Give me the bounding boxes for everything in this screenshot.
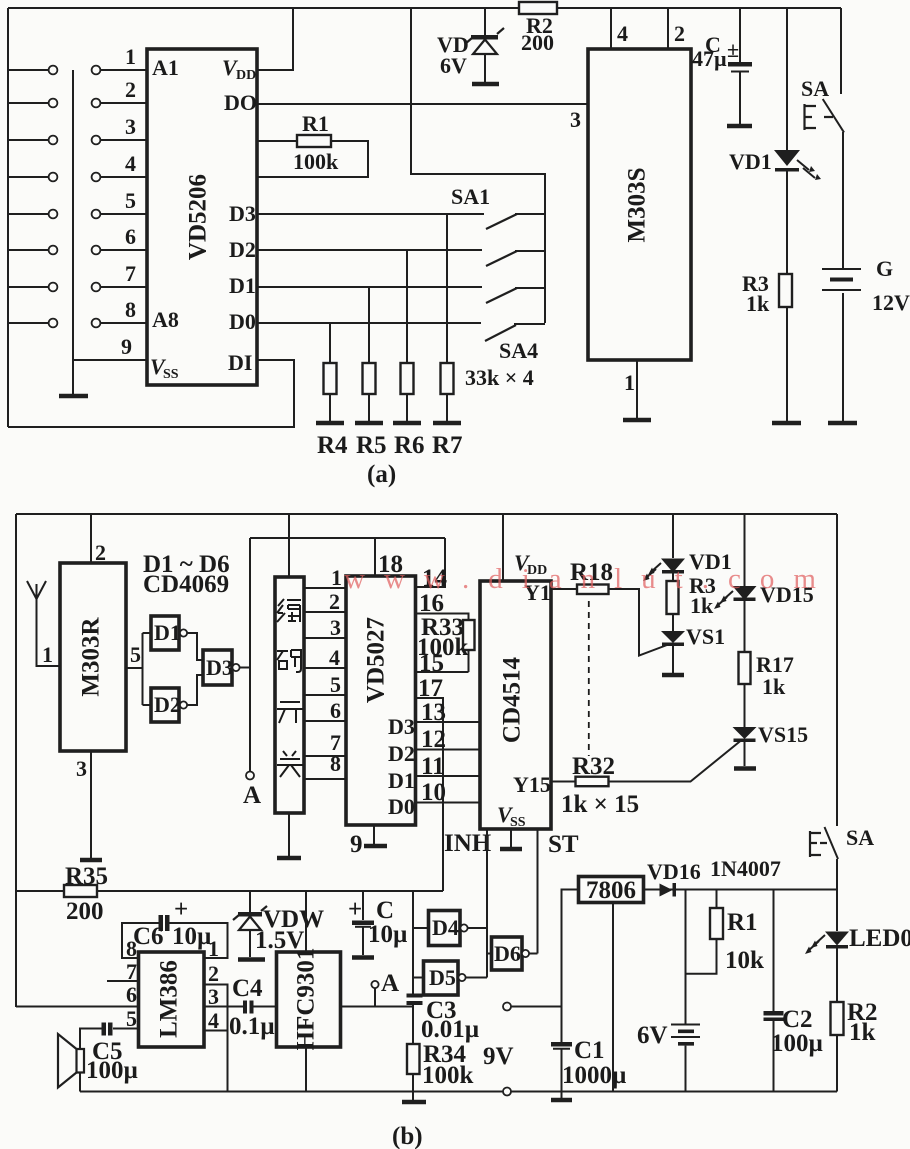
thyristor VS15 — [733, 722, 809, 766]
pin 14 of VD5027 — [416, 538, 448, 592]
IC HFC9301 — [277, 948, 341, 1051]
coding switch pin 3 — [304, 615, 346, 640]
svg-text:DI: DI — [228, 350, 252, 375]
pin 16 wire — [416, 590, 469, 620]
resistor R4 — [317, 323, 348, 459]
svg-text:LM386: LM386 — [156, 960, 183, 1038]
svg-text:100k: 100k — [293, 149, 339, 174]
wire left border — [7, 8, 9, 427]
svg-text:SA4: SA4 — [499, 338, 538, 363]
svg-text:8: 8 — [330, 751, 341, 776]
IC VD5027 — [346, 576, 416, 825]
svg-text:0.1µ: 0.1µ — [229, 1013, 275, 1040]
pin 17 wire INH riser — [416, 675, 444, 891]
inverter D4 — [429, 911, 488, 946]
coding switch pin 5 — [304, 672, 346, 697]
INH wire CD4514 to D4/D5 — [487, 829, 492, 978]
svg-text:200: 200 — [521, 30, 554, 55]
svg-text:200: 200 — [66, 898, 104, 925]
svg-text:(b): (b) — [392, 1123, 423, 1149]
svg-text:D2: D2 — [388, 741, 415, 766]
pin 8 wire — [122, 923, 160, 961]
battery 6V — [637, 1022, 700, 1092]
svg-text:D5: D5 — [429, 965, 456, 990]
svg-text:C1: C1 — [574, 1037, 605, 1064]
svg-text:100µ: 100µ — [86, 1057, 138, 1084]
svg-text:10: 10 — [421, 779, 446, 806]
svg-text:D2: D2 — [154, 692, 181, 717]
speaker — [58, 1034, 84, 1092]
svg-text:C2: C2 — [782, 1006, 813, 1033]
svg-text:13: 13 — [421, 699, 446, 726]
svg-text:VD5206: VD5206 — [185, 174, 212, 260]
svg-text:1: 1 — [331, 565, 342, 590]
svg-text:R5: R5 — [356, 432, 387, 459]
svg-text:INH: INH — [444, 830, 492, 857]
capacitor C 47u — [692, 8, 752, 124]
svg-text:R35: R35 — [65, 863, 108, 890]
inverter D3 — [187, 633, 250, 705]
pin 12 wire D2 — [416, 726, 481, 753]
svg-text:1k: 1k — [690, 593, 714, 618]
keypad row 4 — [8, 151, 147, 181]
svg-text:+: + — [348, 896, 362, 923]
svg-text:R32: R32 — [572, 753, 615, 780]
wire D2 line — [257, 249, 482, 251]
resistor R5 — [356, 287, 387, 459]
svg-text:6V: 6V — [440, 53, 467, 78]
svg-text:DO: DO — [224, 90, 257, 115]
Y15 wire — [551, 781, 576, 783]
resistor R2 — [519, 2, 557, 55]
keypad row 1 — [8, 44, 147, 74]
svg-text:R1: R1 — [302, 111, 329, 136]
ground R3 — [772, 421, 801, 426]
svg-text:3: 3 — [76, 756, 87, 781]
wire DO to M303S pin3 — [257, 103, 588, 105]
resistor R1 with loop to OSC pins — [257, 111, 368, 177]
svg-text:VD1: VD1 — [729, 149, 772, 174]
coding switch pin 6 — [304, 698, 346, 723]
switch SA2 — [486, 251, 545, 266]
wire D3 line — [257, 213, 484, 215]
bottom rail (b) — [80, 1091, 837, 1093]
wire rail to SA switches — [411, 8, 545, 323]
end bar C 10u — [352, 955, 374, 960]
svg-text:2: 2 — [329, 589, 340, 614]
keypad row 8 — [8, 297, 147, 327]
svg-text:VS1: VS1 — [686, 624, 725, 649]
resistor R1 (b) — [686, 890, 765, 975]
resistor R6 — [394, 250, 425, 459]
pin 2 of M303R — [91, 514, 106, 565]
svg-text:D1: D1 — [154, 620, 181, 645]
svg-text:R6: R6 — [394, 432, 425, 459]
svg-text:LED0: LED0 — [849, 925, 910, 952]
pin 2 of M303S — [668, 8, 685, 49]
svg-text:M303S: M303S — [624, 168, 651, 243]
pin 9 of VD5027 — [350, 825, 387, 858]
switch SA3 — [486, 288, 545, 303]
inverter D1 — [143, 616, 188, 705]
ground Vss — [59, 394, 88, 399]
coding switch pin 7 — [304, 730, 346, 756]
svg-text:5: 5 — [330, 672, 341, 697]
svg-text:D3: D3 — [388, 714, 415, 739]
svg-text:HFC9301: HFC9301 — [293, 948, 320, 1051]
svg-text:C6: C6 — [133, 923, 164, 950]
svg-text:SS: SS — [163, 367, 179, 382]
svg-text:10k: 10k — [725, 947, 764, 974]
keypad row 5 — [8, 188, 147, 218]
svg-text:3: 3 — [125, 114, 136, 139]
supply bus (b lower) — [250, 890, 443, 892]
resistor R18 — [570, 559, 613, 594]
IC M303R — [60, 563, 126, 751]
ground R4 — [316, 421, 344, 426]
svg-text:R7: R7 — [432, 432, 463, 459]
resistor R33 — [417, 614, 475, 672]
wire D1 line — [257, 286, 482, 288]
svg-text:1000µ: 1000µ — [562, 1062, 626, 1089]
LED VD1 (b) — [643, 514, 732, 581]
label D1~D6 CD4069 — [143, 551, 230, 598]
svg-text:10µ: 10µ — [368, 921, 407, 948]
svg-text:6: 6 — [125, 224, 136, 249]
svg-text:2: 2 — [95, 540, 106, 565]
svg-text:4: 4 — [617, 21, 628, 46]
capacitor C1 — [551, 1007, 626, 1092]
svg-text:100k: 100k — [422, 1062, 474, 1089]
pin 5 wire of M303R — [126, 642, 143, 668]
svg-text:SA: SA — [801, 76, 829, 101]
resistor R7 — [432, 214, 463, 459]
capacitor C6 — [133, 896, 211, 950]
svg-text:SS: SS — [510, 815, 526, 830]
svg-text:3: 3 — [208, 984, 219, 1009]
svg-text:6: 6 — [126, 982, 137, 1007]
dashed line Y1..Y15 — [588, 601, 590, 756]
svg-text:R1: R1 — [727, 909, 758, 936]
wire D0 line — [257, 322, 481, 324]
svg-text:5: 5 — [126, 1006, 137, 1031]
svg-text:DD: DD — [236, 68, 256, 83]
pin 7 stub — [107, 959, 139, 984]
svg-text:7: 7 — [125, 261, 136, 286]
pin 1 of M303S — [624, 360, 637, 418]
pin 4 of M303S — [611, 8, 628, 49]
coding switch box 编码开关 — [275, 577, 304, 813]
keypad row 6 — [8, 224, 147, 254]
7806 ground pin — [612, 903, 614, 1092]
svg-text:1: 1 — [208, 936, 219, 961]
svg-text:1: 1 — [624, 370, 635, 395]
svg-text:1k: 1k — [746, 291, 770, 316]
svg-text:C: C — [376, 897, 394, 924]
resistor R2 (b) — [831, 999, 878, 1092]
wire riser coding switch to border — [288, 514, 290, 577]
svg-text:17: 17 — [418, 675, 443, 702]
inverter D6 — [492, 937, 538, 970]
svg-text:2: 2 — [208, 961, 219, 986]
svg-text:1k: 1k — [762, 674, 786, 699]
svg-text:6: 6 — [330, 698, 341, 723]
pin 9 Vss wire — [73, 334, 147, 394]
LED VD1 (a) — [729, 8, 821, 274]
resistor R32 — [561, 753, 639, 818]
pin 5 wire — [113, 1006, 139, 1031]
ground VDW — [238, 957, 265, 962]
svg-text:33k × 4: 33k × 4 — [465, 365, 534, 390]
ground battery G — [828, 421, 857, 426]
keypad row 7 — [8, 261, 147, 291]
HFC output wire — [341, 1006, 414, 1008]
resistor R35 — [16, 863, 443, 925]
svg-text:CD4069: CD4069 — [143, 571, 229, 598]
switch SA (a) — [801, 8, 844, 132]
svg-text:0.01µ: 0.01µ — [421, 1016, 479, 1043]
9V terminal top — [483, 1003, 562, 1071]
capacitor C5 — [80, 1023, 138, 1085]
svg-text:Y15: Y15 — [513, 772, 551, 797]
svg-text:ST: ST — [548, 831, 579, 858]
zener VDW — [233, 891, 324, 957]
wire top border (b) — [16, 513, 837, 515]
ST wire — [537, 829, 539, 954]
battery G 12V — [822, 132, 910, 421]
thyristor VS1 — [661, 624, 725, 673]
coding switch pin 1 — [304, 565, 346, 590]
svg-text:D0: D0 — [388, 794, 415, 819]
svg-text:D6: D6 — [494, 941, 521, 966]
switch SA4 — [465, 324, 545, 390]
svg-text:A8: A8 — [152, 307, 179, 332]
inverter D2 — [143, 688, 188, 722]
capacitor C2 — [764, 890, 823, 1092]
svg-text:SA: SA — [846, 825, 874, 850]
LED VD15 — [714, 514, 814, 652]
pin 3 of M303R — [76, 751, 91, 858]
svg-text:VS15: VS15 — [758, 722, 808, 747]
end bar of C — [727, 124, 752, 129]
svg-text:SA1: SA1 — [451, 184, 490, 209]
terminal bar pin3 — [80, 858, 102, 863]
svg-text:2: 2 — [125, 77, 136, 102]
Y1 wire — [551, 588, 577, 590]
svg-text:1: 1 — [42, 642, 53, 667]
ground R5 — [355, 421, 383, 426]
wire horizontal to VD5027 top — [250, 537, 445, 539]
resistor R3 (a) — [742, 271, 792, 421]
pins 2 and 4 wires — [204, 961, 228, 1092]
svg-text:7806: 7806 — [586, 877, 636, 904]
6V battery branch wire — [685, 890, 687, 1025]
switch SA1 — [451, 184, 545, 229]
svg-text:+: + — [174, 896, 188, 923]
svg-text:VD16: VD16 — [647, 859, 701, 884]
diode VD16 — [644, 856, 838, 897]
svg-text:D0: D0 — [229, 309, 256, 334]
coding switch pin 8 — [304, 751, 346, 779]
pin 15 wire — [416, 650, 469, 677]
svg-text:5: 5 — [130, 642, 141, 667]
svg-text:1k: 1k — [849, 1019, 876, 1046]
inverter D5 — [424, 961, 488, 995]
end bar VS1 — [662, 673, 684, 678]
VDD pin of CD4514 — [503, 514, 547, 581]
wire VDD riser — [257, 8, 293, 70]
capacitor C3 — [407, 994, 480, 1045]
svg-text:3: 3 — [330, 615, 341, 640]
HFC9301 top pin — [305, 891, 307, 952]
svg-text:1N4007: 1N4007 — [710, 856, 781, 881]
keypad row 2 — [8, 77, 147, 107]
svg-text:9: 9 — [121, 334, 132, 359]
svg-text:4: 4 — [329, 645, 340, 670]
svg-text:VD5027: VD5027 — [363, 617, 390, 703]
svg-text:10µ: 10µ — [172, 923, 211, 950]
svg-text:M303R: M303R — [78, 616, 105, 696]
pin 13 wire D3 — [416, 699, 481, 726]
svg-text:3: 3 — [570, 107, 581, 132]
wire R32 to VS15 gate — [609, 741, 742, 782]
wire R18 to VS1 gate — [609, 589, 668, 656]
regulator 7806 — [579, 877, 644, 905]
ground C1 — [551, 1092, 572, 1101]
LED LED0 — [805, 892, 910, 1002]
IC VD5206 — [147, 49, 257, 385]
ground CD4514 — [500, 829, 522, 849]
IC CD4514 — [480, 580, 551, 830]
svg-text:12V: 12V — [872, 290, 910, 315]
capacitor C4 — [204, 975, 277, 1040]
svg-text:6V: 6V — [637, 1022, 668, 1049]
switch SA (b) — [810, 514, 874, 892]
svg-text:1: 1 — [125, 44, 136, 69]
capacitor C 10u (b) — [348, 891, 407, 955]
svg-text:www.dianlut.com: www.dianlut.com — [344, 563, 835, 595]
svg-text:D1: D1 — [229, 273, 256, 298]
pin 10 wire D0 — [416, 779, 481, 806]
pin 1 wire loop — [169, 923, 228, 961]
svg-text:8: 8 — [125, 297, 136, 322]
svg-text:9V: 9V — [483, 1043, 514, 1070]
node A line (b upper) — [243, 538, 261, 809]
svg-text:R4: R4 — [317, 432, 348, 459]
IC LM386 — [139, 952, 205, 1047]
end bar VS15 — [734, 766, 756, 771]
svg-text:(a): (a) — [367, 461, 396, 488]
svg-text:11: 11 — [421, 753, 445, 780]
svg-text:A: A — [243, 782, 261, 809]
svg-text:D4: D4 — [432, 915, 459, 940]
svg-text:CD4514: CD4514 — [499, 656, 526, 743]
HFC9301 bottom pin — [305, 1047, 307, 1092]
antenna — [27, 581, 60, 667]
resistor R34 — [407, 1041, 474, 1100]
svg-text:D3: D3 — [206, 655, 233, 680]
svg-text:1k × 15: 1k × 15 — [561, 791, 639, 818]
resistor R3 (b) — [667, 573, 716, 631]
svg-text:D1: D1 — [388, 768, 415, 793]
svg-text:G: G — [876, 256, 893, 281]
svg-text:4: 4 — [208, 1008, 219, 1033]
ground R7 — [433, 421, 461, 426]
svg-text:9: 9 — [350, 831, 363, 858]
pin 18 of VD5027 — [375, 538, 403, 578]
svg-text:D3: D3 — [229, 201, 256, 226]
pin 6 wire to border — [16, 982, 139, 1007]
IC M303S — [588, 49, 691, 360]
terminal A (b lower) — [371, 970, 399, 1007]
svg-text:A1: A1 — [152, 55, 179, 80]
svg-text:12: 12 — [421, 726, 446, 753]
ground R34 — [402, 1100, 426, 1105]
svg-text:C4: C4 — [232, 975, 263, 1002]
svg-text:15: 15 — [419, 650, 444, 677]
wire left border (b) — [15, 514, 17, 1007]
svg-text:4: 4 — [125, 151, 136, 176]
zener diode VD 6V — [437, 8, 504, 82]
pin 11 wire D1 — [416, 753, 481, 780]
wire top supply rail — [8, 7, 841, 9]
svg-text:5: 5 — [125, 188, 136, 213]
resistor R17 — [739, 652, 794, 727]
svg-text:±: ± — [727, 37, 739, 62]
keypad row 3 — [8, 114, 147, 144]
svg-text:100µ: 100µ — [771, 1030, 823, 1057]
svg-text:D2: D2 — [229, 237, 256, 262]
ground R6 — [393, 421, 421, 426]
ground of VD — [472, 82, 499, 87]
wire bottom loop to DI — [8, 360, 294, 427]
9V terminal bottom — [503, 1088, 511, 1096]
wire keypad common column — [72, 70, 74, 360]
svg-text:A: A — [381, 970, 399, 997]
svg-text:47µ: 47µ — [692, 46, 727, 71]
svg-text:2: 2 — [674, 21, 685, 46]
ground M303S — [623, 418, 651, 423]
coding switch pin 2 — [304, 589, 346, 614]
wire inverter input bus — [413, 891, 429, 994]
7806 input wire — [562, 890, 579, 1007]
ground of coding switch — [277, 813, 301, 858]
svg-text:7: 7 — [126, 959, 137, 984]
coding switch pin 4 — [304, 645, 346, 670]
